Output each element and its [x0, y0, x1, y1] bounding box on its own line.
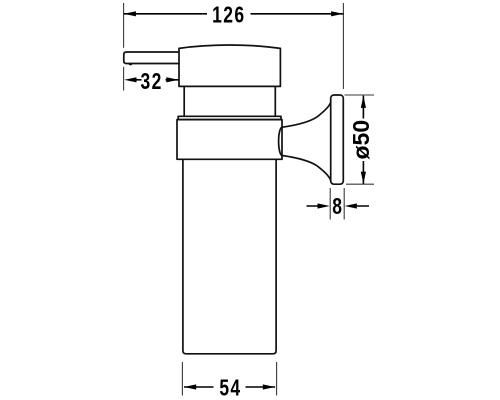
svg-text:54: 54 — [219, 376, 241, 400]
svg-text:126: 126 — [212, 3, 245, 28]
svg-text:8: 8 — [332, 195, 342, 220]
svg-text:32: 32 — [141, 70, 163, 95]
svg-text:ø50: ø50 — [348, 120, 374, 160]
